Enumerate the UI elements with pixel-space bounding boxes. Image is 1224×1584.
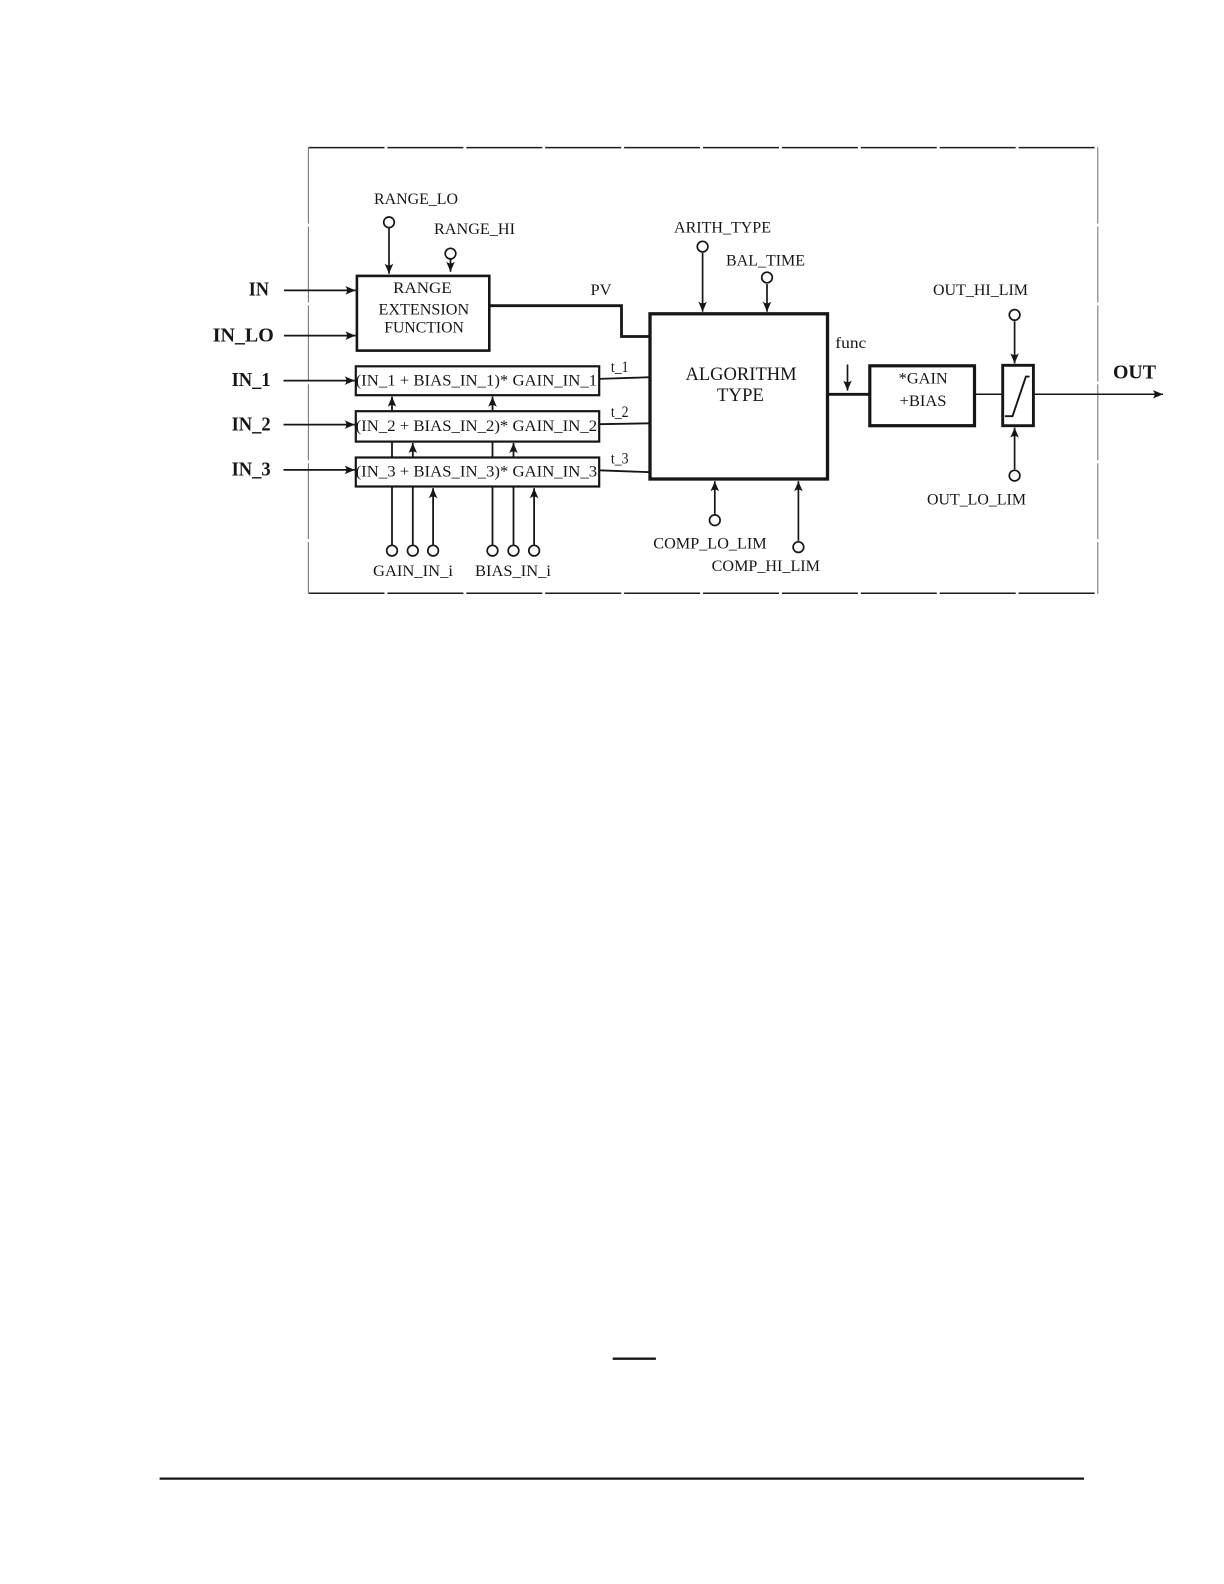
svg-text:BIAS_IN_i: BIAS_IN_i: [475, 563, 552, 580]
arrow ARITH_TYPE down: [702, 253, 704, 312]
block *GAIN +BIAS: [870, 366, 975, 426]
arrow BAL_TIME down: [766, 284, 768, 312]
block (IN_3 + BIAS_IN_3)* GAIN_IN_3: [356, 458, 600, 487]
block (IN_1 + BIAS_IN_1)* GAIN_IN_1: [356, 366, 600, 395]
connector circle COMP_HI_LIM: [793, 542, 804, 553]
svg-text:IN: IN: [249, 279, 270, 301]
dashed boundary bottom: [309, 592, 1099, 594]
block (IN_2 + BIAS_IN_2)* GAIN_IN_2: [356, 411, 600, 441]
connector circle OUT_HI_LIM: [1009, 310, 1020, 321]
svg-text:RANGE_LO: RANGE_LO: [374, 191, 458, 208]
wire GAIN_IN_2 arrow up to box2: [412, 443, 414, 545]
svg-text:RANGE: RANGE: [393, 280, 451, 297]
svg-text:ALGORITHM: ALGORITHM: [686, 365, 797, 385]
arrow RANGE_LO down: [388, 229, 390, 274]
svg-text:RANGE_HI: RANGE_HI: [434, 221, 515, 238]
svg-text:func: func: [835, 335, 866, 352]
block RANGE EXTENSION FUNCTION: [357, 276, 489, 351]
svg-text:*GAIN: *GAIN: [899, 371, 948, 388]
footer rule: [160, 1477, 1084, 1479]
svg-text:ARITH_TYPE: ARITH_TYPE: [674, 220, 771, 237]
arrow IN_1: [284, 380, 355, 382]
svg-text:(IN_2 + BIAS_IN_2)* GAIN_IN_2: (IN_2 + BIAS_IN_2)* GAIN_IN_2: [356, 418, 597, 435]
connector circle BIAS_IN_2: [508, 545, 519, 556]
svg-text:OUT_HI_LIM: OUT_HI_LIM: [933, 282, 1028, 299]
svg-text:OUT_LO_LIM: OUT_LO_LIM: [927, 492, 1026, 509]
svg-text:GAIN_IN_i: GAIN_IN_i: [373, 563, 454, 580]
arrow RANGE_HI down: [450, 260, 452, 272]
svg-text:TYPE: TYPE: [717, 386, 764, 406]
arrow COMP_HI_LIM up: [797, 481, 799, 541]
svg-text:t_1: t_1: [611, 359, 629, 376]
svg-text:FUNCTION: FUNCTION: [384, 320, 464, 337]
connector circle BIAS_IN_3: [529, 545, 540, 556]
wire GAIN_IN_3 arrow up to box3: [432, 488, 434, 544]
arrow IN: [284, 289, 356, 291]
connector circle GAIN_IN_3: [428, 545, 439, 556]
svg-text:t_3: t_3: [611, 451, 629, 468]
wire gain block to limiter: [975, 393, 1003, 395]
svg-text:+BIAS: +BIAS: [900, 393, 947, 410]
wire t_3: [599, 470, 650, 472]
arrow func down: [847, 365, 849, 391]
connector circle BIAS_IN_1: [487, 545, 498, 556]
short rule mid page: [613, 1357, 656, 1359]
dashed boundary top: [309, 147, 1099, 149]
wire t_2: [599, 422, 650, 425]
wire BIAS_IN_1 arrow up to box1: [492, 397, 494, 545]
arrow IN_3: [284, 469, 355, 471]
svg-text:(IN_3 + BIAS_IN_3)* GAIN_IN_3: (IN_3 + BIAS_IN_3)* GAIN_IN_3: [356, 464, 597, 481]
svg-text:t_2: t_2: [611, 404, 629, 421]
connector circle COMP_LO_LIM: [710, 515, 721, 526]
svg-text:IN_2: IN_2: [232, 414, 271, 436]
svg-text:BAL_TIME: BAL_TIME: [726, 253, 805, 270]
arrow OUT_HI_LIM down: [1014, 321, 1016, 363]
dashed boundary right: [1097, 148, 1099, 594]
connector circle BAL_TIME: [762, 272, 773, 283]
svg-text:COMP_HI_LIM: COMP_HI_LIM: [712, 558, 820, 575]
wire t_1: [599, 377, 650, 379]
wire BIAS_IN_3 arrow up to box3: [533, 488, 535, 544]
svg-text:(IN_1 + BIAS_IN_1)* GAIN_IN_1: (IN_1 + BIAS_IN_1)* GAIN_IN_1: [356, 372, 597, 389]
connector circle OUT_LO_LIM: [1009, 470, 1020, 481]
svg-text:COMP_LO_LIM: COMP_LO_LIM: [653, 535, 766, 552]
block ALGORITHM TYPE: [650, 314, 828, 479]
wire PV: [489, 306, 649, 337]
connector circle RANGE_LO: [384, 217, 395, 228]
limiter transfer curve: [1005, 377, 1030, 417]
svg-text:IN_3: IN_3: [232, 459, 271, 481]
svg-text:IN_1: IN_1: [232, 369, 271, 391]
svg-text:IN_LO: IN_LO: [213, 325, 274, 347]
arrow COMP_LO_LIM up: [714, 481, 716, 514]
dashed boundary left: [307, 148, 309, 594]
arrow IN_2: [284, 424, 355, 426]
wire algorithm to gain block: [828, 393, 871, 396]
arrow IN_LO: [284, 335, 356, 337]
connector circle ARITH_TYPE: [697, 241, 708, 252]
svg-text:EXTENSION: EXTENSION: [379, 301, 470, 318]
wire OUT arrow: [1034, 393, 1163, 395]
wire BIAS_IN_2 arrow up to box2: [513, 443, 515, 545]
connector circle GAIN_IN_2: [408, 545, 419, 556]
svg-text:PV: PV: [591, 282, 612, 299]
arrow OUT_LO_LIM up: [1014, 428, 1016, 470]
wire GAIN_IN_1 arrow up to box1: [391, 397, 393, 545]
block output limiter: [1003, 365, 1034, 425]
connector circle RANGE_HI: [445, 248, 456, 259]
connector circle GAIN_IN_1: [387, 545, 398, 556]
svg-text:OUT: OUT: [1113, 362, 1157, 384]
